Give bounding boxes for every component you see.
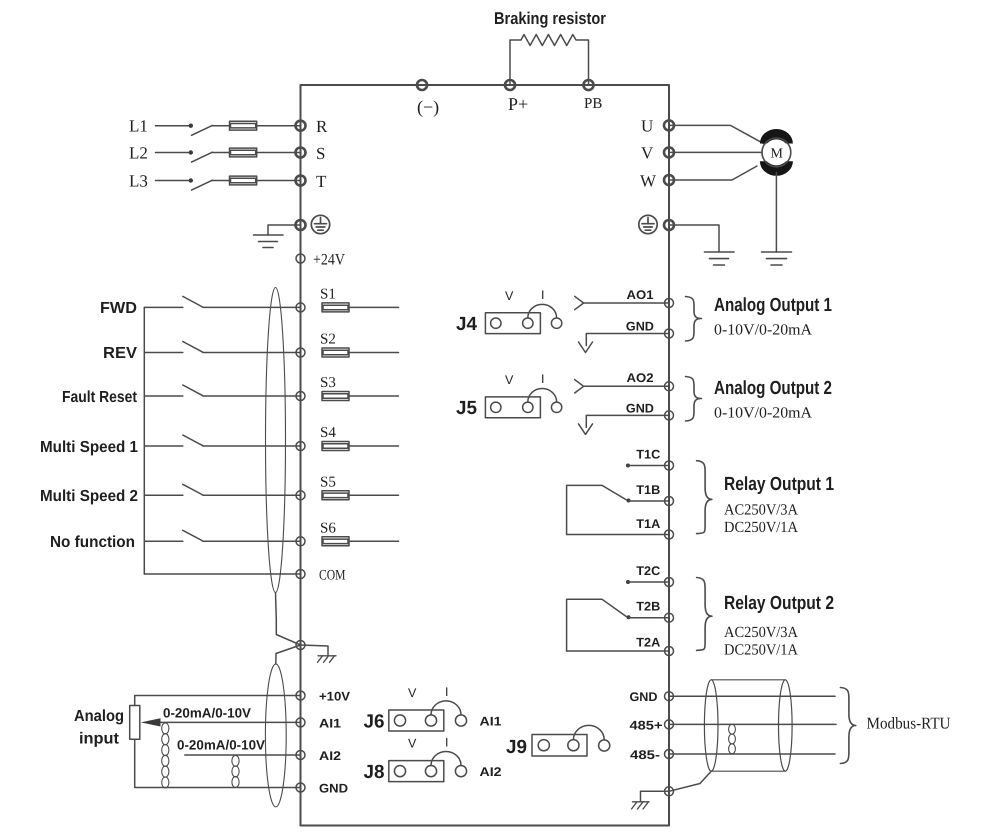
svg-text:J6: J6 bbox=[364, 712, 385, 733]
motor M top cap bbox=[760, 129, 793, 144]
terminal S bbox=[296, 148, 306, 158]
wire F1 to R bbox=[257, 125, 301, 127]
switch Multi Speed 1 blade bbox=[183, 435, 203, 446]
terminal 485- bbox=[665, 750, 674, 759]
terminal 485 GND bbox=[665, 692, 674, 701]
wire T2A bbox=[567, 650, 669, 652]
wire V to motor bbox=[669, 151, 762, 153]
svg-text:J5: J5 bbox=[456, 398, 477, 419]
svg-text:PB: PB bbox=[584, 96, 602, 112]
terminal GND analog bbox=[296, 783, 305, 792]
svg-text:W: W bbox=[640, 172, 657, 191]
potentiometer analog input bbox=[130, 706, 140, 740]
svg-text:FWD: FWD bbox=[100, 300, 137, 317]
wire shield drain lower bbox=[276, 645, 301, 664]
terminal PB bbox=[584, 80, 594, 90]
terminal 485+ bbox=[665, 720, 674, 729]
switch FWD blade bbox=[183, 296, 203, 307]
jumper J4 pin 2 bbox=[523, 318, 533, 328]
svg-text:Analog: Analog bbox=[74, 708, 124, 725]
svg-text:GND: GND bbox=[626, 401, 654, 415]
wire COM bbox=[144, 573, 300, 575]
terminal PE left bbox=[296, 220, 306, 230]
svg-text:No function: No function bbox=[50, 534, 135, 551]
jumper J6 pin 3 bbox=[455, 715, 466, 726]
PE symbol right bbox=[639, 215, 657, 233]
svg-text:L3: L3 bbox=[129, 172, 148, 191]
ground motor bbox=[762, 252, 792, 265]
ground left input bbox=[254, 235, 284, 248]
svg-text:0-20mA/0-10V: 0-20mA/0-10V bbox=[163, 706, 251, 721]
node T2C dot bbox=[626, 580, 630, 584]
chassis ground internal bbox=[318, 656, 337, 663]
wire FWD lead bbox=[144, 306, 183, 308]
relay 1 common arm bbox=[567, 485, 627, 534]
svg-text:J9: J9 bbox=[506, 737, 527, 758]
terminal V bbox=[664, 147, 674, 157]
terminal S4 bbox=[296, 442, 305, 451]
svg-text:GND: GND bbox=[319, 782, 348, 796]
terminal S5 bbox=[296, 491, 305, 500]
wire W to motor bbox=[669, 166, 757, 180]
twisted pair 485 bbox=[729, 724, 736, 754]
terminal T1B bbox=[665, 497, 674, 506]
svg-text:S2: S2 bbox=[320, 332, 336, 348]
arrow GND AO1 down bbox=[579, 342, 593, 353]
wire L3 lead bbox=[156, 180, 189, 182]
jumper J8 pin 1 bbox=[394, 766, 405, 777]
wire Fault Reset lead bbox=[144, 395, 183, 397]
fuse F1 bbox=[230, 121, 257, 130]
wire motor ground bbox=[775, 173, 777, 253]
jumper J4 pin 3 bbox=[551, 318, 561, 328]
svg-text:COM: COM bbox=[319, 567, 346, 583]
brace modbus bbox=[840, 688, 855, 764]
svg-text:AO2: AO2 bbox=[627, 371, 654, 385]
wire AO2 bbox=[584, 385, 669, 387]
twisted pair AI1-GND bbox=[162, 723, 169, 788]
svg-text:I: I bbox=[541, 288, 544, 302]
svg-text:S: S bbox=[316, 144, 325, 163]
svg-text:GND: GND bbox=[626, 319, 654, 333]
fuse F2 bbox=[230, 148, 257, 157]
terminal AI1 bbox=[296, 718, 305, 727]
svg-text:P+: P+ bbox=[508, 94, 528, 114]
arrow GND AO2 down bbox=[579, 424, 593, 435]
terminal PE right bbox=[664, 220, 674, 230]
svg-text:S5: S5 bbox=[320, 474, 336, 490]
terminal shield bbox=[296, 641, 305, 650]
svg-text:L2: L2 bbox=[129, 144, 148, 163]
switch L2 blade bbox=[192, 152, 213, 162]
node L1 pivot dot bbox=[189, 124, 193, 128]
switch REV blade bbox=[183, 342, 203, 353]
switch No function blade bbox=[183, 530, 203, 541]
svg-text:I: I bbox=[445, 685, 448, 699]
wire No function to S6 bbox=[203, 540, 301, 542]
resistor R-brake zigzag bbox=[510, 35, 589, 86]
jumper J8 pin 2 bbox=[425, 766, 436, 777]
wire left PE bbox=[268, 225, 301, 235]
jumper J5 pin 2 bbox=[523, 402, 533, 412]
node T2B dot bbox=[627, 615, 631, 619]
node L3 pivot dot bbox=[189, 178, 193, 182]
terminal T bbox=[296, 176, 306, 186]
svg-text:T: T bbox=[316, 172, 327, 191]
svg-text:V: V bbox=[505, 289, 514, 303]
svg-text:T2A: T2A bbox=[636, 636, 660, 650]
brace relay output 1 bbox=[697, 461, 712, 534]
wire S2 internal bbox=[349, 352, 399, 354]
arrow AO2 source bbox=[575, 380, 584, 393]
brace analog output 2 bbox=[686, 377, 702, 422]
svg-text:Multi Speed 2: Multi Speed 2 bbox=[40, 488, 138, 505]
shielded cable left ellipse bbox=[704, 680, 718, 771]
brace analog output 1 bbox=[686, 297, 702, 342]
svg-text:S4: S4 bbox=[320, 425, 336, 441]
wire L1 lead bbox=[156, 125, 189, 127]
wire T2C bbox=[628, 581, 669, 583]
svg-text:Relay Output 1: Relay Output 1 bbox=[724, 474, 834, 495]
shield ellipse digital inputs bbox=[266, 288, 286, 593]
arrow AI1 wiper bbox=[141, 718, 161, 726]
terminal +10V bbox=[296, 691, 305, 700]
svg-text:(−): (−) bbox=[417, 97, 439, 117]
terminal +24V bbox=[296, 254, 305, 263]
jumper J4 link arc bbox=[528, 304, 557, 317]
svg-text:AI1: AI1 bbox=[480, 715, 502, 729]
svg-text:AI1: AI1 bbox=[319, 716, 341, 730]
terminal T1C bbox=[665, 461, 674, 470]
svg-text:+10V: +10V bbox=[319, 690, 351, 704]
svg-text:DC250V/1A: DC250V/1A bbox=[724, 641, 799, 658]
wire FWD to S1 bbox=[203, 306, 301, 308]
terminal R bbox=[296, 121, 306, 131]
svg-text:U: U bbox=[641, 117, 653, 136]
svg-text:0-20mA/0-10V: 0-20mA/0-10V bbox=[177, 738, 265, 753]
svg-text:485+: 485+ bbox=[630, 718, 663, 732]
svg-text:T2C: T2C bbox=[636, 564, 660, 578]
wire Multi Speed 1 to S4 bbox=[203, 445, 301, 447]
digital input bus bbox=[143, 307, 145, 574]
jumper J4 pin 1 bbox=[491, 318, 501, 328]
wire F3 to T bbox=[257, 180, 301, 182]
svg-text:I: I bbox=[445, 736, 448, 750]
svg-text:Relay Output 2: Relay Output 2 bbox=[724, 593, 834, 614]
terminal GND AO1 bbox=[665, 329, 674, 338]
filter S1 bbox=[322, 303, 349, 312]
wire Multi Speed 2 to S5 bbox=[203, 494, 301, 496]
node L2 pivot dot bbox=[189, 150, 193, 154]
terminal AI2 bbox=[296, 751, 305, 760]
svg-text:I: I bbox=[541, 372, 544, 386]
svg-text:V: V bbox=[641, 144, 654, 163]
svg-text:T1A: T1A bbox=[636, 517, 660, 531]
wire F2 to S bbox=[257, 152, 301, 154]
terminal GND AO2 bbox=[665, 411, 674, 420]
svg-text:AC250V/3A: AC250V/3A bbox=[724, 624, 799, 641]
svg-text:J4: J4 bbox=[456, 314, 477, 335]
terminal S2 bbox=[296, 348, 305, 357]
wire Multi Speed 2 lead bbox=[144, 494, 183, 496]
arrow AO1 source bbox=[575, 296, 584, 309]
svg-text:S1: S1 bbox=[320, 287, 336, 303]
terminal AO2 bbox=[665, 382, 674, 391]
wire REV to S2 bbox=[203, 352, 301, 354]
chassis ground 485 bbox=[632, 802, 650, 809]
wire L2 to fuse bbox=[212, 152, 229, 154]
svg-text:J8: J8 bbox=[364, 762, 385, 783]
jumper J8 link arc bbox=[431, 752, 461, 766]
svg-text:Fault Reset: Fault Reset bbox=[62, 389, 138, 406]
svg-text:L1: L1 bbox=[129, 117, 148, 136]
terminal AO1 bbox=[665, 299, 674, 308]
motor M bottom cap bbox=[760, 161, 793, 176]
svg-text:T1B: T1B bbox=[636, 483, 660, 497]
wire right PE bbox=[669, 225, 719, 252]
shielded cable top line bbox=[711, 679, 785, 681]
jumper J9 pin 2 bbox=[568, 740, 579, 751]
wire No function lead bbox=[144, 540, 183, 542]
switch Fault Reset blade bbox=[183, 385, 203, 396]
brace relay output 2 bbox=[697, 578, 712, 651]
svg-text:AI2: AI2 bbox=[480, 765, 502, 779]
terminal T2B bbox=[665, 613, 674, 622]
wire GND AO2 bbox=[586, 415, 669, 427]
svg-text:R: R bbox=[316, 117, 328, 136]
jumper J5 block bbox=[485, 397, 540, 418]
wire L2 lead bbox=[156, 152, 189, 154]
svg-text:T1C: T1C bbox=[636, 448, 660, 462]
wire shield drain upper bbox=[276, 593, 301, 646]
filter S2 bbox=[322, 348, 349, 357]
wire AI2 bbox=[185, 754, 301, 756]
switch L3 blade bbox=[192, 180, 213, 190]
svg-text:S3: S3 bbox=[320, 375, 336, 391]
jumper J5 pin 1 bbox=[491, 402, 501, 412]
svg-text:AC250V/3A: AC250V/3A bbox=[724, 502, 799, 519]
wire 485 GND bbox=[669, 695, 835, 697]
jumper J9 pin 1 bbox=[538, 740, 549, 751]
wire GND AO1 bbox=[586, 334, 669, 346]
wire REV lead bbox=[144, 352, 183, 354]
jumper J6 block bbox=[389, 710, 444, 731]
svg-text:V: V bbox=[408, 686, 417, 700]
svg-text:0-10V/0-20mA: 0-10V/0-20mA bbox=[714, 322, 813, 339]
svg-text:GND: GND bbox=[630, 690, 658, 704]
wire S3 internal bbox=[349, 395, 399, 397]
filter S4 bbox=[322, 442, 349, 451]
wire S1 internal bbox=[349, 306, 399, 308]
jumper J9 link arc bbox=[573, 725, 604, 740]
shield ellipse analog inputs bbox=[265, 664, 286, 807]
svg-text:Analog Output 2: Analog Output 2 bbox=[714, 378, 832, 399]
terminal T1A bbox=[665, 530, 674, 539]
jumper J8 pin 3 bbox=[455, 766, 466, 777]
wire shield 485 to cable bbox=[669, 771, 711, 791]
wire 485+ bbox=[669, 723, 836, 725]
jumper J4 block bbox=[485, 313, 540, 334]
wire Multi Speed 1 lead bbox=[144, 445, 183, 447]
wire Fault Reset to S3 bbox=[203, 395, 301, 397]
node T1B dot bbox=[627, 499, 631, 503]
wire AO1 bbox=[584, 302, 669, 304]
terminal U bbox=[664, 120, 674, 130]
wire T1A bbox=[567, 534, 669, 536]
terminal (-) bbox=[417, 80, 427, 90]
jumper J6 link arc bbox=[431, 701, 461, 715]
terminal T2A bbox=[665, 647, 674, 656]
PE symbol left bbox=[311, 215, 329, 233]
wire T1C bbox=[628, 465, 669, 467]
terminal COM bbox=[296, 570, 305, 579]
jumper J9 block bbox=[532, 735, 587, 757]
filter S5 bbox=[322, 491, 349, 500]
ground right PE bbox=[705, 252, 735, 265]
wire pot top to +10V bbox=[135, 696, 301, 706]
wire S6 internal bbox=[349, 540, 399, 542]
wire shield 485 to ground bbox=[641, 791, 670, 802]
wire pot bottom to GND bbox=[135, 739, 301, 787]
relay 2 common arm bbox=[567, 599, 627, 651]
svg-text:Modbus-RTU: Modbus-RTU bbox=[867, 714, 951, 733]
svg-text:T2B: T2B bbox=[636, 600, 660, 614]
wire U to motor bbox=[669, 125, 764, 143]
fuse F3 bbox=[230, 176, 257, 185]
filter S6 bbox=[322, 537, 349, 546]
wire 485- bbox=[669, 753, 835, 755]
svg-text:V: V bbox=[505, 373, 514, 387]
shielded cable bottom line bbox=[711, 770, 785, 772]
inverter main box bbox=[301, 85, 670, 826]
terminal S3 bbox=[296, 392, 305, 401]
wire T1B bbox=[629, 500, 670, 502]
terminal P+ bbox=[505, 80, 515, 90]
shielded cable right ellipse bbox=[779, 680, 793, 771]
wire L1 to fuse bbox=[212, 125, 229, 127]
svg-text:Analog Output 1: Analog Output 1 bbox=[714, 295, 832, 316]
terminal T2C bbox=[665, 578, 674, 587]
filter S3 bbox=[322, 392, 349, 401]
jumper J6 pin 1 bbox=[394, 715, 405, 726]
wire L3 to fuse bbox=[212, 180, 229, 182]
svg-text:AI2: AI2 bbox=[319, 749, 341, 763]
svg-text:input: input bbox=[79, 731, 120, 748]
svg-text:M: M bbox=[771, 147, 784, 162]
terminal W bbox=[664, 175, 674, 185]
svg-text:S6: S6 bbox=[320, 520, 336, 536]
jumper J6 pin 2 bbox=[425, 715, 436, 726]
svg-text:Braking resistor: Braking resistor bbox=[494, 9, 606, 28]
svg-text:Multi Speed 1: Multi Speed 1 bbox=[40, 439, 138, 456]
terminal shield 485 bbox=[665, 787, 674, 796]
wire S5 internal bbox=[349, 494, 399, 496]
svg-text:REV: REV bbox=[103, 345, 137, 362]
svg-text:0-10V/0-20mA: 0-10V/0-20mA bbox=[714, 405, 813, 422]
jumper J5 link arc bbox=[528, 389, 557, 402]
wire AI1 bbox=[159, 721, 301, 723]
motor M body bbox=[763, 139, 789, 165]
wire shield to chassis ground bbox=[301, 645, 329, 656]
jumper J8 block bbox=[389, 761, 444, 782]
node T1C dot bbox=[626, 464, 630, 468]
terminal S6 bbox=[296, 537, 305, 546]
switch Multi Speed 2 blade bbox=[183, 484, 203, 495]
wire T2B bbox=[629, 617, 670, 619]
svg-text:+24V: +24V bbox=[313, 252, 345, 269]
jumper J5 pin 3 bbox=[551, 402, 561, 412]
terminal S1 bbox=[296, 303, 305, 312]
svg-text:V: V bbox=[408, 737, 417, 751]
svg-text:DC250V/1A: DC250V/1A bbox=[724, 519, 799, 536]
svg-text:AO1: AO1 bbox=[627, 288, 654, 302]
svg-text:485-: 485- bbox=[630, 748, 660, 762]
switch L1 blade bbox=[192, 125, 213, 135]
jumper J9 pin 3 bbox=[599, 740, 610, 751]
twisted pair AI2-GND bbox=[232, 755, 239, 787]
wire S4 internal bbox=[349, 445, 399, 447]
